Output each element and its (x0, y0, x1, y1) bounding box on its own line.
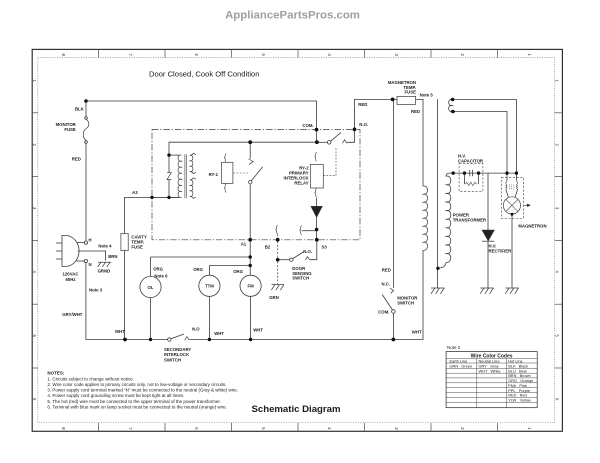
svg-text:RECTIFIER: RECTIFIER (489, 249, 513, 254)
svg-text:4: 4 (327, 54, 332, 57)
svg-text:N.O.: N.O. (303, 249, 312, 254)
svg-text:8: 8 (61, 427, 66, 430)
svg-text:COM.: COM. (302, 123, 313, 128)
svg-text:1: 1 (527, 427, 532, 430)
svg-text:120VAC: 120VAC (63, 272, 79, 277)
svg-text:BLK: BLK (75, 106, 85, 111)
svg-text:SECONDARY: SECONDARY (164, 347, 191, 352)
svg-text:N.O.: N.O. (359, 122, 368, 127)
svg-text:2: 2 (460, 427, 465, 430)
svg-text:OL: OL (148, 285, 154, 290)
svg-text:GRN: GRN (269, 295, 279, 300)
svg-text:INTERLOCK: INTERLOCK (164, 352, 190, 357)
svg-text:NOTES:: NOTES: (47, 371, 65, 376)
svg-text:Door Closed, Cook Off Conditio: Door Closed, Cook Off Condition (149, 70, 259, 79)
svg-text:GRY/WHT: GRY/WHT (62, 312, 83, 317)
svg-text:FUSE: FUSE (405, 90, 417, 95)
svg-text:TRANSFORMER: TRANSFORMER (453, 218, 487, 223)
svg-text:Note 4: Note 4 (98, 243, 112, 248)
svg-text:6: 6 (194, 54, 199, 57)
svg-text:5: 5 (554, 335, 559, 338)
svg-text:SWITCH: SWITCH (164, 358, 181, 363)
svg-text:Note 3: Note 3 (89, 288, 103, 293)
svg-text:8: 8 (61, 54, 66, 57)
svg-text:3: 3 (554, 207, 559, 210)
svg-text:SWITCH: SWITCH (397, 300, 414, 305)
svg-text:3. Power supply cord terminal: 3. Power supply cord terminal marked “N”… (47, 388, 238, 393)
svg-text:N.C.: N.C. (382, 281, 391, 286)
svg-text:4. Power supply cord groundin: 4. Power supply cord grounding screw mus… (47, 393, 184, 398)
svg-text:60Hz: 60Hz (65, 277, 75, 282)
svg-text:FM: FM (247, 284, 254, 289)
svg-text:CAPACITOR: CAPACITOR (458, 159, 484, 164)
svg-text:RED: RED (358, 102, 367, 107)
svg-text:RED: RED (72, 157, 81, 162)
svg-text:N.O: N.O (192, 326, 200, 331)
svg-text:2. Wire color code applies to: 2. Wire color code applies to primary ci… (47, 382, 226, 387)
svg-text:Schematic Diagram: Schematic Diagram (251, 404, 340, 415)
svg-text:3: 3 (394, 427, 399, 430)
svg-text:GRND: GRND (98, 269, 111, 274)
svg-text:ORG: ORG (233, 269, 243, 274)
svg-text:4: 4 (327, 427, 332, 430)
svg-text:H: H (89, 238, 92, 243)
svg-text:TTM: TTM (205, 284, 214, 289)
svg-text:RED: RED (382, 267, 391, 272)
svg-text:RED: RED (411, 109, 420, 114)
svg-text:AppliancePartsPros.com: AppliancePartsPros.com (225, 10, 360, 22)
svg-text:6: 6 (554, 398, 559, 401)
svg-text:1. Circuits subject to change: 1. Circuits subject to change without no… (47, 376, 134, 381)
svg-text:WHT White: WHT White (479, 368, 501, 373)
svg-text:FUSE: FUSE (64, 127, 76, 132)
svg-text:3: 3 (394, 54, 399, 57)
svg-text:1: 1 (554, 80, 559, 83)
svg-text:Note 5: Note 5 (420, 92, 434, 97)
svg-text:BRN: BRN (108, 254, 117, 259)
svg-text:RELAY: RELAY (294, 180, 308, 185)
svg-text:B2: B2 (265, 244, 271, 249)
svg-text:A1: A1 (241, 241, 247, 246)
svg-text:A3: A3 (132, 190, 138, 195)
svg-text:MAGNETRON: MAGNETRON (518, 223, 546, 228)
svg-text:N: N (89, 262, 92, 267)
svg-text:WHT: WHT (115, 329, 125, 334)
svg-text:6: 6 (194, 427, 199, 430)
svg-text:4: 4 (554, 271, 559, 274)
svg-text:WHT: WHT (214, 331, 224, 336)
svg-text:7: 7 (128, 427, 133, 430)
svg-text:6. Terminal with blue mark on: 6. Terminal with blue mark on lamp socke… (47, 404, 227, 409)
svg-text:S3: S3 (322, 244, 328, 249)
svg-text:2: 2 (460, 54, 465, 57)
svg-text:COM.: COM. (378, 309, 389, 314)
svg-text:SWITCH: SWITCH (292, 276, 309, 281)
svg-text:Note 6: Note 6 (154, 274, 168, 279)
svg-text:FUSE: FUSE (131, 245, 143, 250)
svg-text:Note 2: Note 2 (447, 345, 461, 350)
svg-text:WHT: WHT (412, 329, 422, 334)
svg-text:RY-1: RY-1 (209, 172, 219, 177)
svg-text:GRN Green: GRN Green (450, 363, 473, 368)
svg-text:5. The hot (red) wire must be: 5. The hot (red) wire must be connected … (47, 399, 221, 404)
svg-text:7: 7 (128, 54, 133, 57)
svg-text:WHT: WHT (253, 327, 263, 332)
svg-text:5: 5 (261, 54, 266, 57)
svg-text:5: 5 (261, 427, 266, 430)
svg-text:2: 2 (554, 144, 559, 147)
svg-text:ORG: ORG (193, 267, 203, 272)
svg-text:ORG: ORG (153, 266, 163, 271)
svg-text:1: 1 (527, 54, 532, 57)
svg-text:YLW Yellow: YLW Yellow (508, 398, 531, 403)
